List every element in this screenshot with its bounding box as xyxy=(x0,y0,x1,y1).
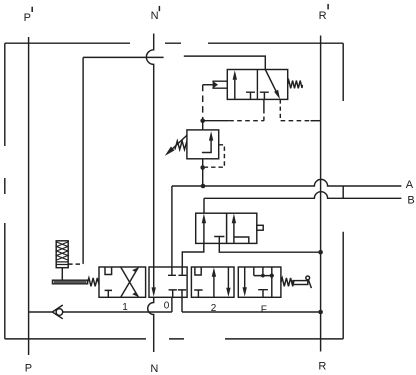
port R' label xyxy=(319,10,327,22)
sq2 blocked port T xyxy=(194,290,202,297)
dashed drain from unloader valve xyxy=(279,99,281,120)
wire N below valve with hop over tank line xyxy=(148,297,154,352)
svg-text:R: R xyxy=(319,10,327,22)
enclosure border bottom xyxy=(5,338,343,340)
main valve square F xyxy=(238,267,281,297)
main valve square 2 xyxy=(191,267,234,297)
sqF down arrow xyxy=(244,267,246,288)
U1 left blocked T xyxy=(246,92,255,99)
check valve xyxy=(52,305,63,319)
sq2 down arrow xyxy=(227,267,229,288)
U1 left up arrow xyxy=(234,80,236,100)
U2 left up arrow xyxy=(203,223,205,243)
svg-text:0: 0 xyxy=(164,301,170,312)
sq0 top blocked ports xyxy=(168,267,186,275)
label F xyxy=(261,304,267,315)
tank line left xyxy=(29,311,172,313)
sq2 closed port notch xyxy=(195,267,201,275)
sq1 closed port notch xyxy=(105,267,112,275)
U1 spring xyxy=(288,81,303,89)
pilot line y120 from relief junction xyxy=(203,120,230,122)
wire N' vertical with hop over pilot line xyxy=(146,34,153,268)
port N' label xyxy=(151,10,159,22)
U2 left blocked T xyxy=(214,237,224,244)
svg-text:P: P xyxy=(25,363,32,375)
U1 pilot dashed line down xyxy=(202,85,204,119)
sq2 up arrow xyxy=(213,276,215,297)
label 1 xyxy=(122,302,128,313)
port R label xyxy=(318,360,326,372)
main valve square 0 xyxy=(149,267,187,297)
enclosure border right xyxy=(342,43,344,339)
U1 right blocked T xyxy=(260,92,269,99)
line A with hop over R xyxy=(172,179,402,186)
port P' label xyxy=(24,12,31,24)
dashed riser to unloader valve port xyxy=(263,110,265,121)
U1 diagonal arrow xyxy=(265,70,276,92)
main valve spring left xyxy=(88,278,99,286)
svg-text:P: P xyxy=(24,12,31,24)
wire R'-R vertical xyxy=(320,36,322,352)
tank line right xyxy=(182,297,321,312)
svg-text:R: R xyxy=(318,360,326,372)
junction relief on line A xyxy=(201,184,206,189)
detent bar xyxy=(53,280,88,284)
wire U2 drain to R xyxy=(219,243,320,252)
label A xyxy=(406,179,414,191)
svg-text:1: 1 xyxy=(122,302,128,313)
detent spring box xyxy=(56,241,68,268)
junction tank R xyxy=(318,310,323,315)
wire detent pilot drop xyxy=(82,57,84,264)
relief valve spring xyxy=(175,141,187,150)
lever knob xyxy=(306,276,310,280)
sq0 bottom blocked ports xyxy=(169,290,187,297)
relief valve pilot dashed loop xyxy=(205,145,224,167)
dashed link detent release xyxy=(68,263,83,265)
detent stem xyxy=(61,268,63,281)
unloader valve U1 body xyxy=(227,70,287,100)
relief valve R1 body xyxy=(187,130,219,159)
junction relief pilot return xyxy=(200,165,205,170)
tank line stub to valve xyxy=(171,297,173,312)
main valve spring right xyxy=(281,278,294,286)
junction pilot/relief xyxy=(200,118,205,123)
svg-text:N: N xyxy=(150,363,158,375)
relief valve top port xyxy=(202,121,204,130)
label 0 xyxy=(164,301,170,312)
sq0 neutral passage arrow xyxy=(153,267,155,288)
port P label xyxy=(25,363,32,375)
relief valve flow arrow xyxy=(202,140,211,153)
sq1 crossed arrows xyxy=(121,267,138,297)
svg-text:B: B xyxy=(407,194,414,206)
U1 pilot actuator xyxy=(212,81,227,88)
U2 right up arrow xyxy=(233,223,235,243)
wire U2 to valve jog xyxy=(182,243,204,267)
port N label xyxy=(150,363,158,375)
junction drain R xyxy=(318,250,323,255)
wire port-A drop to valve xyxy=(171,186,173,267)
main valve square 1 xyxy=(99,267,146,297)
svg-text:N: N xyxy=(151,10,159,22)
wire pilot supply line y57 xyxy=(83,56,265,69)
svg-text:F: F xyxy=(261,304,267,315)
U2 right bent passage xyxy=(234,237,249,243)
lever bar right xyxy=(293,281,308,285)
svg-text:A: A xyxy=(406,179,414,191)
label 2 xyxy=(211,303,217,314)
U2 side port stub xyxy=(257,225,263,230)
sqF blocked port T xyxy=(258,290,268,298)
relief valve bottom port xyxy=(202,159,204,186)
enclosure border left xyxy=(4,43,6,339)
label B xyxy=(407,194,414,206)
line B with hop over R xyxy=(204,192,401,214)
sq1 blocked port T xyxy=(105,290,112,297)
wire P'-P vertical xyxy=(28,37,30,355)
enclosure border top xyxy=(5,42,343,44)
selector valve U2 body xyxy=(196,213,257,243)
sqF float bridge xyxy=(254,267,272,297)
relief valve adjust arrow xyxy=(170,135,187,151)
